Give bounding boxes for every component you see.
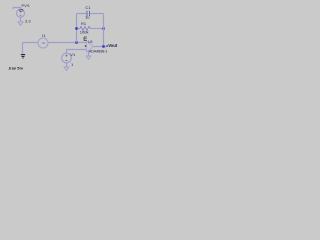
resistor R1 zigzag xyxy=(80,26,91,30)
voltage source V5 xyxy=(17,9,25,17)
wire C1 right xyxy=(90,13,104,15)
wire feedback right rail xyxy=(103,14,105,47)
wire R1 left xyxy=(77,28,81,30)
ground bars xyxy=(21,55,25,58)
wire opamp plus input from V1 xyxy=(67,50,87,54)
svg-text:1u: 1u xyxy=(85,14,89,19)
svg-text:.tran 5m: .tran 5m xyxy=(8,66,24,71)
node dot R1 right xyxy=(102,27,104,29)
svg-text:V1: V1 xyxy=(70,52,76,57)
node dot output xyxy=(102,45,104,47)
svg-text:3.3: 3.3 xyxy=(25,19,31,24)
capacitor C1 xyxy=(87,11,90,16)
wire below V1 xyxy=(66,63,68,67)
wire main horizontal left xyxy=(23,42,39,44)
node dot R1 left xyxy=(75,27,77,29)
wire I1 to opamp minus xyxy=(48,42,87,44)
svg-text:U1: U1 xyxy=(88,40,93,44)
wire feedback left rail xyxy=(76,14,78,43)
wire output xyxy=(94,46,108,48)
svg-text:R1: R1 xyxy=(81,21,87,26)
wire C1 left xyxy=(77,13,87,15)
opamp V+ rail symbol xyxy=(84,37,87,41)
svg-text:100k: 100k xyxy=(80,29,89,34)
ground arrow under V5 xyxy=(18,22,23,26)
ground arrow under op-amp xyxy=(86,56,91,59)
svg-text:C1: C1 xyxy=(85,5,91,10)
voltage source V1 xyxy=(62,53,72,63)
wire ground drop xyxy=(22,43,24,55)
op-amp U1 triangle xyxy=(87,41,94,52)
wire below V5 xyxy=(20,17,22,22)
wire stub to V5 top xyxy=(13,8,21,10)
opamp V- pin xyxy=(88,51,90,56)
Vout probe arrow xyxy=(107,45,109,47)
ground arrow under V1 xyxy=(64,67,69,71)
svg-text:ADA4898-1: ADA4898-1 xyxy=(89,50,108,54)
svg-text:V5: V5 xyxy=(19,8,25,13)
background xyxy=(0,0,120,78)
wire R1 right xyxy=(91,28,104,30)
node junction dot feedback xyxy=(75,41,77,43)
current source I1 xyxy=(38,38,48,48)
svg-text:Vout: Vout xyxy=(108,43,118,48)
